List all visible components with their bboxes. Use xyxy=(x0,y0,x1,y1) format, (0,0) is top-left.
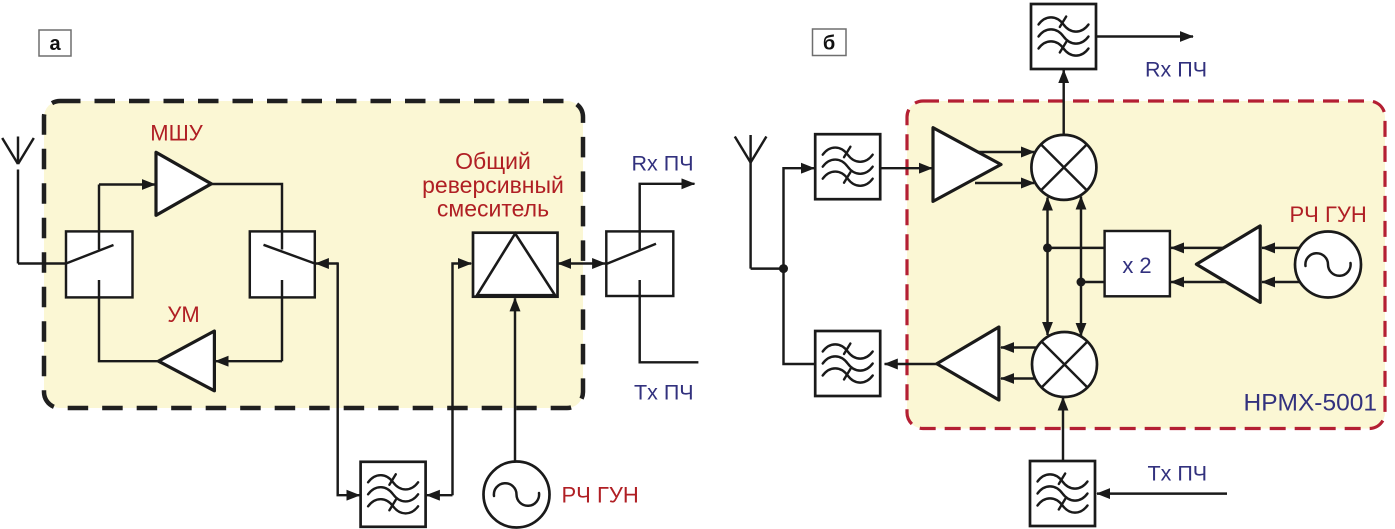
svg-text:х 2: х 2 xyxy=(1122,253,1151,278)
svg-text:а: а xyxy=(49,33,61,55)
svg-text:смеситель: смеситель xyxy=(437,196,549,222)
svg-text:HPMX-5001: HPMX-5001 xyxy=(1244,390,1377,417)
svg-text:реверсивный: реверсивный xyxy=(422,172,564,198)
svg-text:Rx ПЧ: Rx ПЧ xyxy=(632,152,694,176)
svg-text:б: б xyxy=(823,33,835,55)
svg-text:Rx ПЧ: Rx ПЧ xyxy=(1145,58,1207,82)
svg-text:МШУ: МШУ xyxy=(150,121,203,146)
svg-text:РЧ ГУН: РЧ ГУН xyxy=(1290,202,1367,227)
svg-text:УМ: УМ xyxy=(167,302,199,327)
svg-text:Общий: Общий xyxy=(455,148,531,174)
svg-text:РЧ ГУН: РЧ ГУН xyxy=(562,483,639,508)
svg-text:Tx ПЧ: Tx ПЧ xyxy=(1148,462,1208,486)
svg-text:Tx ПЧ: Tx ПЧ xyxy=(634,381,694,405)
